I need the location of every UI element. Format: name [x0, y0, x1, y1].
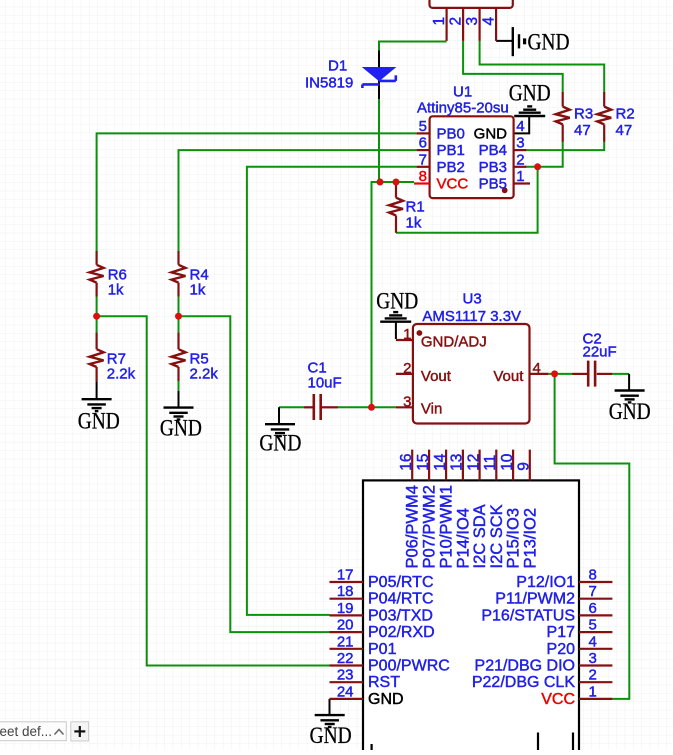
svg-text:R3: R3: [574, 106, 593, 123]
svg-text:P20: P20: [547, 641, 576, 658]
svg-text:2: 2: [516, 151, 524, 168]
svg-text:GND: GND: [376, 289, 418, 315]
svg-text:3: 3: [403, 393, 411, 410]
svg-text:5: 5: [589, 617, 597, 634]
svg-text:GND: GND: [160, 416, 202, 442]
svg-text:10uF: 10uF: [308, 375, 342, 392]
svg-text:R1: R1: [406, 199, 425, 216]
svg-text:P12/IO1: P12/IO1: [516, 574, 575, 591]
svg-text:3: 3: [589, 650, 597, 667]
svg-text:5: 5: [419, 118, 427, 135]
svg-text:GND: GND: [509, 81, 551, 107]
svg-text:P01: P01: [368, 641, 397, 658]
svg-text:10: 10: [499, 453, 516, 471]
svg-text:Attiny85-20su: Attiny85-20su: [417, 100, 509, 117]
svg-text:2: 2: [403, 360, 411, 377]
svg-text:9: 9: [516, 462, 533, 471]
svg-text:GND: GND: [528, 30, 570, 56]
svg-text:Vout: Vout: [421, 368, 452, 385]
svg-text:P06/PWM4: P06/PWM4: [404, 485, 422, 568]
svg-text:3: 3: [516, 135, 524, 152]
svg-text:1: 1: [403, 326, 411, 343]
svg-text:GND: GND: [474, 125, 508, 142]
svg-text:24: 24: [337, 683, 354, 700]
svg-text:47: 47: [616, 122, 633, 139]
svg-text:Vout: Vout: [493, 368, 524, 385]
svg-text:2: 2: [448, 17, 465, 26]
svg-text:23: 23: [337, 667, 354, 684]
svg-text:P14/IO4: P14/IO4: [454, 508, 472, 569]
svg-text:U3: U3: [463, 291, 482, 308]
svg-text:21: 21: [337, 633, 354, 650]
svg-text:P13/IO2: P13/IO2: [521, 508, 539, 569]
svg-text:4: 4: [589, 633, 597, 650]
svg-text:14: 14: [432, 453, 449, 471]
svg-text:PB1: PB1: [437, 142, 465, 159]
svg-text:Vin: Vin: [421, 401, 442, 418]
svg-text:P10/PWM1: P10/PWM1: [438, 485, 456, 568]
svg-text:VCC: VCC: [437, 176, 469, 193]
svg-text:VCC: VCC: [541, 691, 575, 708]
svg-text:GND/ADJ: GND/ADJ: [421, 334, 487, 351]
svg-text:P15/IO3: P15/IO3: [505, 508, 523, 569]
svg-text:AMS1117 3.3V: AMS1117 3.3V: [422, 308, 521, 325]
svg-text:PB2: PB2: [437, 159, 465, 176]
svg-text:GND: GND: [609, 399, 651, 425]
svg-text:18: 18: [337, 583, 354, 600]
svg-text:PB4: PB4: [479, 142, 507, 159]
svg-text:1k: 1k: [406, 215, 422, 232]
svg-text:3: 3: [464, 17, 481, 26]
svg-text:PB5: PB5: [479, 176, 507, 193]
svg-text:GND: GND: [310, 723, 352, 749]
svg-text:Sheet def...: Sheet def...: [0, 724, 52, 739]
svg-text:22uF: 22uF: [583, 344, 617, 361]
svg-text:U1: U1: [453, 84, 472, 101]
svg-text:4: 4: [481, 17, 498, 26]
svg-text:GND: GND: [78, 409, 120, 435]
svg-text:8: 8: [419, 168, 427, 185]
svg-text:20: 20: [337, 617, 354, 634]
svg-text:7: 7: [419, 151, 427, 168]
svg-text:2.2k: 2.2k: [107, 366, 136, 383]
svg-text:22: 22: [337, 650, 354, 667]
svg-text:11: 11: [482, 455, 499, 471]
svg-text:2.2k: 2.2k: [190, 366, 219, 383]
svg-text:4: 4: [533, 360, 541, 377]
svg-text:PB3: PB3: [479, 159, 507, 176]
svg-text:IN5819: IN5819: [305, 75, 353, 92]
svg-text:13: 13: [449, 454, 466, 471]
svg-text:R2: R2: [616, 106, 635, 123]
svg-text:1: 1: [431, 17, 448, 26]
svg-text:PB0: PB0: [437, 125, 465, 142]
svg-text:P03/TXD: P03/TXD: [368, 607, 433, 624]
svg-text:4: 4: [516, 118, 524, 135]
svg-text:P11/PWM2: P11/PWM2: [495, 591, 575, 608]
svg-text:RST: RST: [368, 674, 400, 691]
svg-text:P17: P17: [547, 624, 576, 641]
svg-text:47: 47: [574, 122, 591, 139]
svg-text:GND: GND: [368, 691, 404, 708]
svg-text:6: 6: [589, 600, 597, 617]
svg-text:1: 1: [516, 168, 524, 185]
svg-text:1k: 1k: [190, 282, 206, 299]
svg-text:GND: GND: [259, 431, 301, 457]
svg-text:1k: 1k: [108, 282, 124, 299]
svg-text:12: 12: [465, 454, 482, 471]
svg-text:P02/RXD: P02/RXD: [368, 624, 435, 641]
svg-text:P16/STATUS: P16/STATUS: [481, 607, 575, 624]
svg-text:16: 16: [398, 454, 415, 471]
svg-text:I2C SDA: I2C SDA: [471, 504, 489, 568]
svg-text:8: 8: [589, 567, 597, 584]
svg-text:P04/RTC: P04/RTC: [368, 591, 434, 608]
svg-text:P05/RTC: P05/RTC: [368, 574, 434, 591]
svg-text:P22/DBG CLK: P22/DBG CLK: [472, 674, 575, 691]
svg-text:2: 2: [589, 667, 597, 684]
svg-text:15: 15: [415, 454, 432, 471]
svg-text:P07/PWM2: P07/PWM2: [421, 485, 439, 568]
svg-text:1: 1: [589, 683, 597, 700]
svg-text:6: 6: [419, 135, 427, 152]
svg-text:P00/PWRC: P00/PWRC: [368, 658, 450, 675]
svg-text:I2C SCK: I2C SCK: [488, 504, 506, 568]
svg-text:17: 17: [337, 567, 354, 584]
svg-text:7: 7: [589, 583, 597, 600]
svg-text:P21/DBG DIO: P21/DBG DIO: [475, 658, 575, 675]
svg-text:19: 19: [337, 600, 354, 617]
svg-text:D1: D1: [328, 58, 347, 75]
